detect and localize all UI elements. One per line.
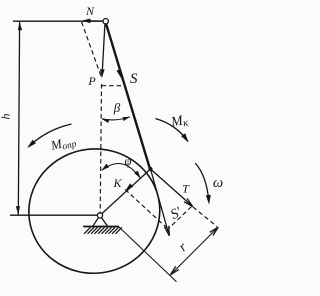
r dimension line — [171, 227, 218, 274]
joint circle at N — [103, 19, 108, 24]
angle phi arc — [102, 163, 141, 178]
force S arrowhead on rod — [117, 69, 122, 78]
svg-text:β: β — [113, 100, 121, 115]
crank line O-J — [100, 169, 151, 215]
joint pin J — [149, 167, 153, 171]
moment Mk arc arrow — [155, 119, 187, 142]
svg-text:N: N — [85, 4, 95, 18]
eccentric disc (large ellipse) — [22, 141, 167, 280]
force N arrow — [83, 20, 103, 22]
dashed parallelogram side T-tip to S'-tip — [168, 207, 192, 230]
ground hatching — [84, 227, 122, 234]
svg-text:ω: ω — [213, 175, 223, 191]
svg-text:K: K — [112, 176, 122, 190]
svg-text:P: P — [87, 74, 96, 88]
h dim arrow bottom — [16, 206, 20, 215]
top bar line — [13, 20, 103, 22]
omega arc arrow — [195, 163, 209, 202]
force S' arrow — [151, 169, 169, 234]
h dimension line — [18, 22, 19, 215]
svg-text:S: S — [130, 71, 138, 87]
force K arrowhead on O-J line — [125, 183, 133, 191]
ground base line — [83, 226, 119, 228]
dashed parallelogram side K-tip to S'-tip — [125, 190, 168, 230]
force P arrow — [102, 25, 105, 77]
bottom reference line — [10, 214, 98, 216]
pivot support — [93, 215, 100, 226]
rod N-J (handle link) — [105, 21, 150, 169]
thin 45-deg extension line bottom-left — [119, 227, 177, 282]
moment Mopr arc arrow — [29, 124, 72, 147]
force T arrow — [151, 169, 192, 206]
dashed extension of T line — [193, 207, 217, 227]
dashed horizontal P-tip to rod — [102, 85, 125, 87]
angle beta arc — [102, 117, 130, 120]
dashed centerline O-N — [100, 84, 101, 213]
h dim arrow top — [18, 22, 22, 31]
dashed construction N-tip to P-tip — [82, 22, 102, 78]
svg-text:h: h — [0, 114, 13, 120]
